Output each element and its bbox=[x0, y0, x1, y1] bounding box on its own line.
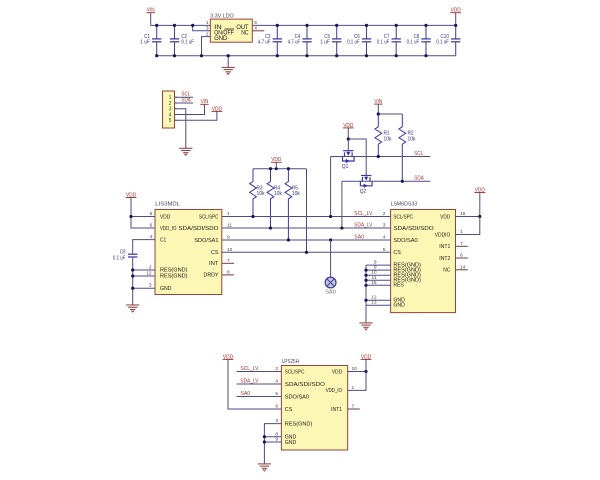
power flag VDD (connector) bbox=[212, 106, 223, 112]
wire SCL line bbox=[331, 156, 431, 158]
svg-text:VDD: VDD bbox=[332, 369, 342, 375]
capacitor C7 bbox=[377, 25, 401, 55]
junction ground rail bbox=[227, 54, 230, 57]
LIS3MDL right pin names bbox=[178, 214, 219, 278]
wire VIN lead down bbox=[150, 13, 152, 26]
svg-text:SA0: SA0 bbox=[354, 234, 364, 240]
wire VDD to LPS25H pin10 bbox=[365, 360, 367, 372]
svg-text:0.1 uF: 0.1 uF bbox=[181, 40, 194, 46]
power flag VDD (gates Q1 Q2) bbox=[343, 123, 354, 129]
wire R1-R2 top link bbox=[378, 113, 402, 115]
svg-text:9: 9 bbox=[227, 235, 230, 241]
capacitor C5 bbox=[320, 25, 341, 55]
wire LPS25H res pin3 bbox=[264, 424, 281, 464]
capacitor C10 bbox=[436, 25, 460, 55]
svg-text:CS: CS bbox=[285, 407, 293, 413]
junction gnd pin9 bbox=[263, 440, 266, 443]
svg-text:10k: 10k bbox=[384, 136, 392, 142]
junction VDD/pin10 bbox=[364, 370, 367, 373]
wire LPS25H pin2 bbox=[237, 371, 282, 373]
wire LPS25H pin5 bbox=[237, 396, 282, 398]
svg-text:5: 5 bbox=[383, 247, 386, 253]
junction SA0 jumper bbox=[329, 238, 332, 241]
junction Q2/SDA_LV bbox=[340, 226, 343, 229]
svg-text:5: 5 bbox=[169, 118, 172, 124]
svg-text:VDD: VDD bbox=[440, 214, 450, 220]
wire connector pin2 SDA bbox=[175, 102, 194, 104]
svg-text:VDD: VDD bbox=[160, 214, 170, 220]
IC LSM6DS33 (gyro/accelerometer) bbox=[391, 210, 456, 313]
junction ground rail bbox=[395, 54, 398, 57]
svg-text:SDA_LV: SDA_LV bbox=[354, 222, 372, 228]
svg-text:SDA: SDA bbox=[414, 176, 424, 182]
junction VDD/pin16 bbox=[478, 215, 481, 218]
svg-text:0.1 uF: 0.1 uF bbox=[407, 40, 420, 46]
svg-text:GND: GND bbox=[393, 302, 404, 308]
junction top rail bbox=[173, 24, 176, 27]
capacitor C4 bbox=[288, 25, 312, 55]
svg-text:LPS25H: LPS25H bbox=[282, 359, 299, 365]
junction res chain bbox=[364, 299, 367, 302]
svg-text:LSM6DS33: LSM6DS33 bbox=[391, 202, 418, 208]
svg-text:Q2: Q2 bbox=[360, 189, 367, 195]
junction top rail bbox=[276, 24, 279, 27]
power flag VDD (LIS3MDL) bbox=[126, 192, 137, 198]
wire res chain vertical bbox=[365, 265, 367, 305]
junction bus/R5 bbox=[287, 167, 290, 170]
svg-text:LIS3MDL: LIS3MDL bbox=[155, 202, 180, 208]
svg-text:SDA: SDA bbox=[181, 97, 191, 103]
wire LIS3MDL pin5 bbox=[131, 216, 155, 218]
svg-text:0.1 uF: 0.1 uF bbox=[347, 40, 360, 46]
junction VIN/R1 bbox=[377, 112, 380, 115]
power flag VIN (connector) bbox=[200, 99, 208, 105]
svg-text:CS: CS bbox=[211, 250, 219, 256]
wire ground stub (regulator) bbox=[227, 56, 229, 68]
svg-text:RES: RES bbox=[393, 283, 404, 289]
resistor R2 bbox=[399, 114, 416, 181]
ground symbol (connector) bbox=[179, 148, 192, 155]
wire connector pin1 SCL bbox=[175, 96, 194, 98]
capacitor C2 bbox=[170, 25, 195, 55]
junction R2/SDA bbox=[401, 180, 404, 183]
junction top rail bbox=[191, 24, 194, 27]
junction res chain bbox=[364, 284, 367, 287]
svg-text:C1: C1 bbox=[160, 237, 166, 243]
junction ground rail bbox=[365, 54, 368, 57]
junction VDD/pin5 bbox=[129, 215, 132, 218]
svg-text:2: 2 bbox=[275, 366, 278, 372]
wire connector pin5 to VDD bbox=[175, 112, 217, 121]
connector pin numbers bbox=[169, 95, 172, 124]
svg-text:5: 5 bbox=[150, 211, 153, 217]
svg-text:1: 1 bbox=[206, 20, 209, 26]
wire VDD lead to bus bbox=[275, 162, 277, 168]
wire LIS3MDL res pin12 bbox=[133, 275, 155, 277]
svg-text:SA0: SA0 bbox=[240, 391, 250, 397]
junction R3/SCL_LV bbox=[251, 215, 254, 218]
resistor R5 bbox=[285, 169, 300, 240]
svg-text:VDD_IO: VDD_IO bbox=[160, 226, 177, 232]
svg-text:6: 6 bbox=[150, 223, 153, 229]
junction R5/SA0 bbox=[287, 238, 290, 241]
junction top rail bbox=[335, 24, 338, 27]
junction ground rail bbox=[305, 54, 308, 57]
wire LSM6DS33 res pin11 bbox=[366, 279, 391, 281]
wire LSM6DS33 pin16 bbox=[456, 216, 480, 218]
LPS25H pin numbers bbox=[275, 366, 357, 443]
wire VDD lead down bbox=[455, 13, 457, 26]
wire gate node to Q2 gate bbox=[348, 139, 366, 176]
wire LDO gnd pin to ground rail bbox=[202, 37, 211, 56]
capacitor C1 bbox=[140, 25, 161, 55]
ground symbol (LPS25H) bbox=[258, 464, 271, 471]
svg-text:4.7 uF: 4.7 uF bbox=[288, 40, 301, 46]
svg-text:5: 5 bbox=[254, 20, 257, 26]
wire LPS25H gnd pin8 bbox=[264, 436, 281, 438]
svg-text:CS: CS bbox=[393, 250, 401, 256]
wire LSM6DS33 pin1 VDDIO bbox=[456, 217, 480, 235]
junction res pin12 bbox=[131, 274, 134, 277]
svg-text:10k: 10k bbox=[274, 191, 282, 197]
wire connector pin3 to ground bbox=[175, 109, 186, 148]
power flag VDD (LPS25H right) bbox=[361, 354, 372, 360]
power flag VDD (pull-ups R3 R4 R5) bbox=[271, 157, 282, 163]
LPS25H right pin names bbox=[326, 369, 343, 413]
wire net SCL_LV bbox=[222, 216, 391, 218]
junction top rail bbox=[305, 24, 308, 27]
svg-text:1 uF: 1 uF bbox=[320, 40, 330, 46]
wire res chain to ground bbox=[365, 305, 367, 323]
IC LIS3MDL (magnetometer) bbox=[155, 210, 222, 295]
svg-text:INT: INT bbox=[209, 261, 219, 267]
power flag VDD (top right) bbox=[450, 8, 461, 14]
pin stub LIS3MDL DRDY bbox=[222, 274, 234, 276]
power flag VDD (LPS25H CS) bbox=[223, 354, 234, 360]
svg-text:5: 5 bbox=[275, 391, 278, 397]
svg-text:INT1: INT1 bbox=[439, 244, 450, 250]
junction R1/SCL bbox=[377, 155, 380, 158]
wire VDD to LPS25H CS bbox=[228, 360, 281, 410]
svg-text:DRDY: DRDY bbox=[204, 273, 219, 279]
LPS25H left pin names bbox=[285, 369, 326, 446]
node SA0 jumper pad bbox=[325, 277, 336, 296]
wire CS pull-up drop bbox=[306, 169, 308, 253]
junction gnd pin8 bbox=[263, 435, 266, 438]
svg-text:10k: 10k bbox=[408, 136, 416, 142]
junction ground rail bbox=[200, 54, 203, 57]
svg-text:INT1: INT1 bbox=[331, 407, 342, 413]
junction ground rail bbox=[155, 54, 158, 57]
svg-text:SCL/SPC: SCL/SPC bbox=[285, 369, 305, 375]
svg-text:4: 4 bbox=[383, 235, 386, 241]
svg-text:NC: NC bbox=[241, 30, 249, 37]
svg-text:GND: GND bbox=[160, 286, 171, 292]
svg-text:SCL/SPC: SCL/SPC bbox=[393, 214, 413, 220]
svg-text:0.1 uF: 0.1 uF bbox=[113, 256, 126, 262]
wire VIN to R1 R2 bbox=[377, 104, 379, 114]
svg-text:10k: 10k bbox=[292, 191, 300, 197]
junction ground rail bbox=[173, 54, 176, 57]
junction res chain bbox=[364, 274, 367, 277]
junction ground rail bbox=[335, 54, 338, 57]
capacitor C8 bbox=[407, 25, 431, 55]
svg-text:SA0: SA0 bbox=[325, 290, 335, 296]
capacitor C9 bbox=[113, 249, 138, 261]
junction bus/R4 bbox=[269, 167, 272, 170]
svg-text:4.7 uF: 4.7 uF bbox=[258, 40, 271, 46]
wire VDD to LIS3MDL vdd pins bbox=[131, 198, 155, 228]
IC LPS25H (barometer) bbox=[281, 366, 347, 451]
wire LSM6DS33 res pin15 bbox=[366, 284, 391, 286]
wire VDD to gate Q1 bbox=[347, 128, 349, 151]
wire LSM6DS33 res pin10 bbox=[366, 274, 391, 276]
wire ground rail bbox=[157, 55, 456, 57]
svg-text:RES(GND): RES(GND) bbox=[285, 421, 313, 427]
svg-text:0.1 uF: 0.1 uF bbox=[377, 40, 390, 46]
wire SDA line bbox=[342, 180, 430, 182]
pin stub LDO NC bbox=[252, 30, 264, 32]
capacitor C6 bbox=[347, 25, 371, 55]
svg-text:SDO/SA0: SDO/SA0 bbox=[393, 238, 417, 244]
svg-text:C9: C9 bbox=[120, 249, 126, 255]
junction res chain bbox=[364, 279, 367, 282]
wire net SDA_LV bbox=[222, 227, 391, 229]
svg-text:10: 10 bbox=[227, 247, 233, 253]
LSM6DS33 right pin names bbox=[435, 214, 451, 273]
power flag VIN (top left) bbox=[147, 8, 155, 14]
junction top rail bbox=[395, 24, 398, 27]
wire LDO on/off jog bbox=[193, 25, 211, 30]
svg-text:SDA/SDI/SDO: SDA/SDI/SDO bbox=[393, 226, 434, 232]
svg-text:SCL/SPC: SCL/SPC bbox=[199, 214, 219, 220]
wire LPS25H pin10 bbox=[348, 371, 366, 373]
LIS3MDL pin numbers bbox=[146, 211, 232, 289]
svg-text:Q1: Q1 bbox=[342, 164, 349, 170]
LDO pin name ON/OFF bbox=[214, 29, 234, 37]
connector JP1 (5-pin header) bbox=[163, 91, 175, 128]
voltage regulator 3.3V LDO bbox=[210, 19, 252, 42]
svg-text:10k: 10k bbox=[257, 191, 265, 197]
junction res chain bbox=[364, 269, 367, 272]
ground symbol (regulator) bbox=[222, 67, 235, 74]
ground symbol (LSM6DS33) bbox=[359, 323, 372, 330]
wire net CS bbox=[222, 251, 391, 253]
junction bus/VDD bbox=[275, 167, 278, 170]
wire SA0 to jumper pad bbox=[330, 240, 332, 278]
junction top rail bbox=[454, 24, 457, 27]
junction top rail bbox=[365, 24, 368, 27]
capacitor C3 bbox=[258, 25, 282, 55]
junction gate node bbox=[347, 137, 350, 140]
resistor R1 bbox=[375, 114, 392, 157]
LIS3MDL left pin names bbox=[160, 214, 188, 292]
wire C9 to ground bbox=[132, 257, 134, 305]
svg-text:3: 3 bbox=[383, 223, 386, 229]
svg-text:RES(GND): RES(GND) bbox=[160, 274, 188, 280]
svg-text:6: 6 bbox=[275, 404, 278, 410]
wire SDA_LV drop from Q2 bbox=[341, 181, 343, 228]
LSM6DS33 pin numbers bbox=[371, 211, 466, 306]
svg-text:VDDIO: VDDIO bbox=[435, 232, 451, 238]
wire LSM6DS33 res pin9 bbox=[366, 269, 391, 271]
svg-text:0.1 uF: 0.1 uF bbox=[436, 40, 449, 46]
pin stub LSM6DS33 INT2 bbox=[456, 257, 468, 259]
pin stub LSM6DS33 INT1 bbox=[456, 245, 468, 247]
power flag VIN (pull-ups R1 R2) bbox=[374, 99, 382, 105]
svg-text:GND: GND bbox=[214, 35, 227, 42]
svg-text:SDA/SDI/SDO: SDA/SDI/SDO bbox=[178, 226, 219, 232]
LDO pin numbers bbox=[206, 20, 257, 37]
pin stub LSM6DS33 NC bbox=[456, 269, 468, 271]
wire net SA0 bbox=[222, 239, 391, 241]
svg-text:SDO/SA0: SDO/SA0 bbox=[285, 394, 309, 400]
power flag VDD (LSM6DS33) bbox=[474, 187, 485, 193]
resistor R3 bbox=[250, 169, 265, 217]
junction res pin2 bbox=[131, 268, 134, 271]
svg-text:1: 1 bbox=[227, 211, 230, 217]
wire LIS3MDL C1 pin to C9 bbox=[133, 240, 155, 255]
svg-text:VDD_IO: VDD_IO bbox=[326, 388, 343, 394]
svg-text:SCL: SCL bbox=[414, 151, 423, 157]
svg-text:INT2: INT2 bbox=[439, 256, 450, 262]
wire VDD to LSM6DS33 pin16 bbox=[479, 193, 481, 217]
resistor R4 bbox=[267, 169, 282, 228]
transistor Q1 bbox=[342, 151, 354, 171]
svg-text:4: 4 bbox=[275, 379, 278, 385]
wire input top rail bbox=[151, 24, 456, 26]
wire LIS3MDL gnd pin3 bbox=[133, 287, 155, 289]
svg-text:SDA_LV: SDA_LV bbox=[240, 378, 258, 384]
wire pull-up bus bbox=[253, 168, 307, 170]
wire LPS25H gnd pin9 bbox=[264, 441, 281, 443]
ground symbol (LIS3MDL) bbox=[126, 305, 139, 312]
wire LSM6DS33 res pin8 bbox=[366, 264, 391, 266]
svg-text:2: 2 bbox=[383, 211, 386, 217]
junction ground rail bbox=[424, 54, 427, 57]
svg-text:3.3V LDO: 3.3V LDO bbox=[210, 13, 234, 19]
junction gnd pin3 bbox=[131, 287, 134, 290]
LSM6DS33 left pin names bbox=[393, 214, 434, 308]
pin stub LIS3MDL INT bbox=[222, 262, 234, 264]
svg-text:1 uF: 1 uF bbox=[140, 40, 150, 46]
wire LIS3MDL res pin2 bbox=[133, 269, 155, 271]
wire connector pin4 to VIN bbox=[175, 104, 205, 114]
pin stub LPS25H INT1 bbox=[348, 408, 360, 410]
junction R4/SDA_LV bbox=[269, 226, 272, 229]
svg-text:SDA/SDI/SDO: SDA/SDI/SDO bbox=[285, 382, 326, 388]
wire LPS25H pin1 VDD_IO bbox=[348, 372, 366, 391]
wire LPS25H pin4 bbox=[237, 383, 282, 385]
junction CS/VDD bbox=[305, 251, 308, 254]
junction top rail bbox=[155, 24, 158, 27]
junction top rail bbox=[424, 24, 427, 27]
svg-text:GND: GND bbox=[285, 440, 296, 446]
svg-text:SDO/SA1: SDO/SA1 bbox=[194, 238, 218, 244]
transistor Q2 bbox=[360, 176, 372, 196]
wire SCL_LV drop from Q1 bbox=[330, 157, 332, 217]
svg-text:SCL_LV: SCL_LV bbox=[354, 211, 372, 217]
svg-text:NC: NC bbox=[443, 268, 450, 274]
wire LSM6DS33 gnd pin12 bbox=[366, 299, 391, 301]
junction Q1/SCL_LV bbox=[329, 215, 332, 218]
svg-text:SCL_LV: SCL_LV bbox=[240, 366, 258, 372]
svg-text:11: 11 bbox=[227, 223, 232, 229]
junction ground rail bbox=[276, 54, 279, 57]
wire LSM6DS33 gnd pin13 bbox=[366, 304, 391, 306]
connector pin stubs bbox=[175, 97, 178, 120]
